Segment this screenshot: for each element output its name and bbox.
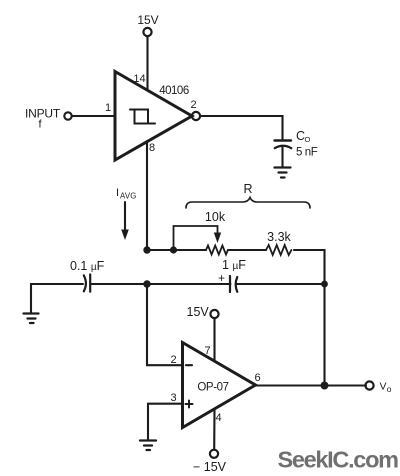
wire op-amp pin 4 to -15V: [213, 409, 215, 450]
op-amp U2 OP-07 triangle: [183, 343, 256, 428]
svg-text:2: 2: [170, 354, 176, 366]
capacitor 1uF (polarized): [230, 276, 237, 292]
svg-text:4: 4: [215, 412, 221, 424]
wire op-amp output to Vo: [256, 384, 367, 386]
inverter U1 40106 triangle: [115, 72, 192, 161]
svg-text:O: O: [305, 135, 311, 144]
wire node C down to op-amp pin 2: [147, 284, 182, 365]
Schmitt hysteresis symbol: [130, 110, 155, 124]
node D junction dot: [321, 281, 328, 288]
svg-text:2: 2: [190, 99, 196, 111]
minus sign pin 2: [186, 364, 192, 366]
svg-text:5 nF: 5 nF: [296, 147, 318, 159]
-15V supply terminal: [193, 450, 227, 474]
Co label: [296, 129, 311, 144]
INPUT label: [25, 107, 61, 131]
svg-text:40106: 40106: [159, 85, 189, 97]
ground (under Co): [275, 168, 291, 178]
svg-text:o: o: [387, 384, 392, 394]
svg-text:I: I: [116, 187, 119, 199]
svg-text:15V: 15V: [137, 13, 158, 27]
svg-text:INPUT: INPUT: [25, 107, 61, 121]
svg-text:1: 1: [105, 102, 111, 114]
wire 3.3k to right rail: [294, 250, 325, 281]
svg-text:0.1 µF: 0.1 µF: [70, 259, 105, 273]
wire left ground to 0.1uF: [31, 284, 83, 313]
output terminal Vo: [365, 381, 391, 395]
svg-text:3: 3: [170, 392, 176, 404]
wire node A to pot: [147, 249, 206, 251]
current arrow Iavg: [116, 187, 137, 240]
svg-text:V: V: [380, 381, 387, 393]
capacitor Co 5nF: [275, 141, 292, 149]
wire right rail down to output node: [323, 284, 325, 386]
svg-text:+: +: [218, 271, 225, 285]
svg-text:7: 7: [204, 345, 210, 357]
svg-text:8: 8: [149, 142, 155, 154]
ground (left): [24, 314, 39, 324]
wire 0.1uF to node C: [91, 283, 148, 285]
15V supply terminal (op-amp): [187, 305, 219, 319]
wire 15V to inverter pin 14: [146, 37, 148, 91]
svg-text:10k: 10k: [205, 210, 226, 224]
node E junction dot (output/right rail): [321, 382, 329, 390]
plus sign pin 3: [186, 401, 193, 408]
wire pin 8 down to node A: [146, 141, 148, 250]
svg-text:− 15V: − 15V: [193, 460, 227, 474]
wire input to pin 1: [72, 115, 115, 117]
potentiometer 10k (rheostat): [174, 226, 228, 255]
svg-text:SeekIC.com: SeekIC.com: [278, 447, 399, 473]
svg-text:AVG: AVG: [120, 192, 137, 201]
wire 15V to op-amp pin 7: [213, 318, 215, 361]
inverter output bubble: [192, 112, 200, 120]
wire op-amp pin 3 to ground: [148, 404, 182, 439]
resistor 3.3k: [266, 245, 291, 255]
wire 1uF to right rail node D: [237, 283, 325, 285]
brace R: [186, 198, 310, 209]
svg-text:14: 14: [133, 73, 145, 85]
node C junction dot: [143, 280, 150, 287]
ground (op-amp pin 3): [140, 441, 156, 451]
svg-text:1 µF: 1 µF: [222, 258, 246, 272]
input terminal circle: [64, 112, 71, 119]
wire pot to 3.3k: [228, 249, 266, 251]
wire Co to ground: [281, 146, 283, 167]
node B junction dot (pot left): [170, 246, 177, 253]
svg-text:3.3k: 3.3k: [267, 230, 291, 244]
wire output to Co: [200, 116, 283, 139]
svg-text:15V: 15V: [187, 305, 210, 319]
svg-text:OP-07: OP-07: [197, 382, 228, 394]
svg-text:R: R: [243, 182, 252, 196]
node A junction dot (pin8/resistor row): [143, 246, 150, 253]
15V supply terminal (top): [137, 13, 158, 36]
svg-text:6: 6: [254, 372, 260, 384]
wire node C to 1uF: [147, 283, 231, 285]
capacitor 0.1uF: [84, 275, 90, 292]
